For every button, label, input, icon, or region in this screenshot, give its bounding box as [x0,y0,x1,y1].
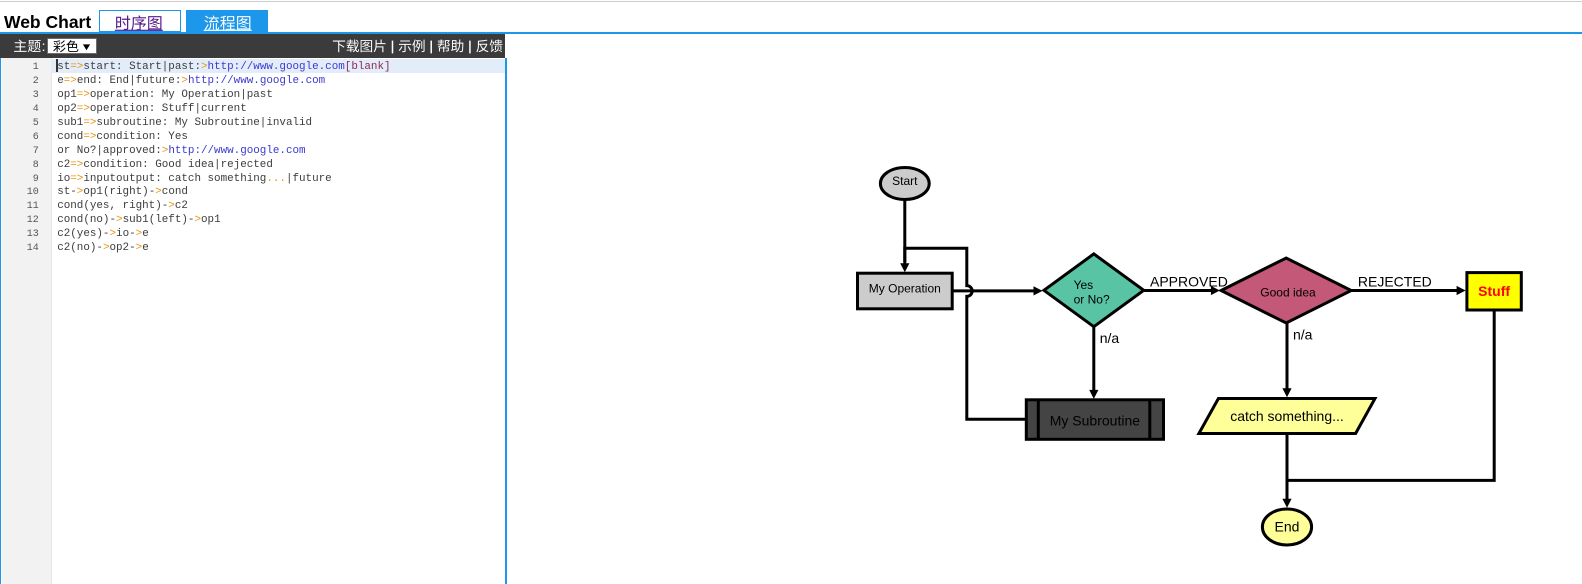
svg-text:Start: Start [892,174,918,188]
page title [4,14,91,32]
tab label sequence-diagram [115,15,163,31]
select dropdown arrow [83,44,90,50]
editor panel [0,58,507,584]
top grey hairline [0,1,1582,2]
svg-text:catch something...: catch something... [1230,408,1344,424]
svg-text:My Subroutine: My Subroutine [1050,413,1140,429]
label REJECTED [1358,273,1432,289]
toolbar [0,34,505,59]
tab sequence diagram [99,10,181,31]
toolbar theme label [14,38,45,54]
svg-text:Stuff: Stuff [1478,283,1510,299]
svg-text:My Operation: My Operation [869,281,941,295]
wire st->op1 [900,200,909,273]
toolbar links 下载图片|示例|帮助|反馈 [333,39,503,53]
operation node My Operation [858,273,953,309]
condition node Good idea [1221,258,1351,323]
tab flowchart (active) [186,10,268,31]
select value 彩色 [53,40,78,52]
svg-text:or No?: or No? [1074,293,1110,307]
svg-text:End: End [1275,519,1300,535]
subroutine node My Subroutine [1026,400,1163,440]
inputoutput node catch something... [1199,399,1375,434]
wire c2->Stuff (no branch REJECTED) [1351,286,1465,295]
blue divider line [0,32,1582,34]
wire Stuff->End join [1287,310,1494,480]
label APPROVED [1150,273,1228,289]
label n/a (cond no) [1100,330,1120,346]
svg-text:Yes: Yes [1074,278,1094,292]
wire cond->c2 (yes branch APPROVED) [1144,286,1220,295]
condition node Yes or No? [1044,254,1144,327]
svg-text:APPROVED: APPROVED [1150,273,1228,289]
svg-text:n/a: n/a [1100,330,1120,346]
svg-text:n/a: n/a [1293,327,1313,343]
tab label flowchart [204,15,252,30]
wire op1->cond [952,286,1042,295]
svg-text:Good idea: Good idea [1260,285,1316,299]
wire c2->io (yes branch) [1282,323,1291,397]
svg-text::: : [42,38,46,54]
end node End [1262,509,1311,545]
wire io->End [1282,434,1291,508]
wire sub1->op1 return path with jump arc [905,248,1027,419]
label n/a (c2 no) [1293,327,1313,343]
wire cond->sub1 (no branch) [1089,327,1098,399]
start node Start [880,168,929,200]
svg-text:REJECTED: REJECTED [1358,273,1432,289]
operation node Stuff [1467,273,1521,310]
